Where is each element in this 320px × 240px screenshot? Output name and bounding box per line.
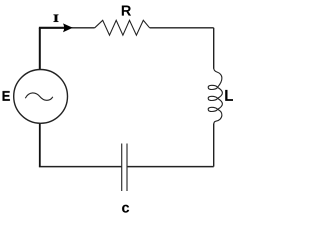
label R [122,6,131,16]
wire left vertical lower (source to bottom) [39,123,41,166]
capacitor C plates [122,144,127,192]
wire left vertical upper (top corner to source) [39,28,41,70]
label I [54,15,59,22]
label E [3,91,10,101]
wire bottom horizontal (capacitor to left corner) [39,166,122,168]
label L [225,90,233,101]
wire bottom horizontal (right corner to capacitor) [127,166,214,168]
AC source sine wave [25,93,53,100]
wire right vertical upper [213,28,215,69]
resistor R zigzag [95,20,150,35]
wire top-left thick segment with current arrow shaft [39,27,66,29]
AC source E circle [14,70,68,124]
current arrow I [63,23,73,32]
wire top horizontal (resistor to right corner) [150,27,214,29]
label c [122,205,129,213]
wire top horizontal (arrow to resistor) [66,27,95,29]
inductor L coil [208,69,222,124]
wire right vertical lower [213,124,215,167]
